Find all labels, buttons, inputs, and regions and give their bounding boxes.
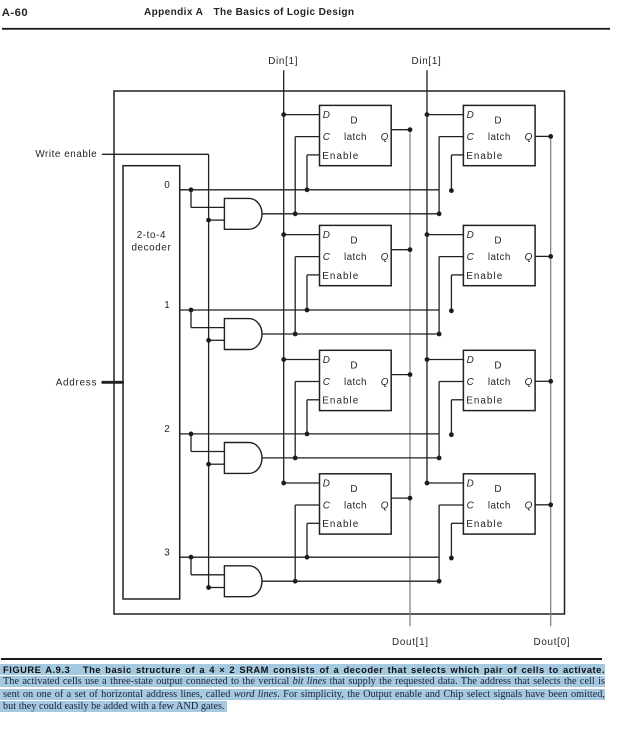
svg-text:Enable: Enable [322,271,359,282]
wire: write-enable tap row 2 [209,463,225,465]
wire: Din to D input row 1 left [284,234,320,236]
Address thick input line [102,381,124,384]
wire: Din vertical x=283.7 [283,70,285,483]
svg-text:Appendix A: Appendix A [144,7,204,18]
wire: Q output row 1 left [391,249,410,251]
AND gate row 1 [224,319,262,350]
svg-text:Enable: Enable [466,396,503,407]
D latch cell row 0 left column [320,105,392,165]
wire: AND output (clock line) row 2 [262,457,439,459]
svg-text:Address: Address [56,378,97,389]
wire: Din to D input row 2 left [284,359,320,361]
wire: C input row 0 right [439,136,463,138]
bit line Dout[0] vertical [550,136,552,626]
svg-text:0: 0 [164,180,170,191]
svg-text:Enable: Enable [322,151,359,162]
svg-text:D: D [467,110,474,121]
svg-text:Enable: Enable [322,519,359,530]
caption line 4 [0,701,227,713]
D latch cell row 3 right column [463,474,535,534]
wire: Din to D input row 3 right [427,482,463,484]
2-to-4 decoder box [123,166,180,599]
svg-text:D: D [350,235,357,246]
wire: Din to D input row 3 left [284,482,320,484]
svg-text:D: D [467,479,474,490]
D latch cell row 0 right column [463,105,535,165]
svg-text:C: C [323,132,331,143]
svg-text:C: C [323,252,331,263]
D latch cell row 3 left column [320,474,392,534]
svg-text:Q: Q [525,377,533,388]
svg-text:C: C [323,377,331,388]
D latch cell row 1 right column [463,225,535,285]
wire: decoder row 2 to AND gate [190,434,192,452]
wire: Enable input row 3 left [307,522,320,524]
wire: C input row 2 right [439,381,463,383]
svg-text:Q: Q [381,252,389,263]
wire: decoder row 0 to AND gate [190,190,192,208]
AND gate row 2 [224,443,262,474]
svg-text:C: C [467,500,475,511]
wire: Enable input row 3 right [451,522,463,524]
svg-text:2: 2 [164,424,170,435]
word line row 1 [180,309,439,311]
word line row 0 [180,189,439,191]
wire: Din to D input row 0 right [427,114,463,116]
wire: Enable input row 2 left [307,399,320,401]
svg-text:Q: Q [525,132,533,143]
svg-text:Din[1]: Din[1] [412,56,442,67]
svg-text:D: D [350,484,357,495]
header rule [2,28,610,30]
wire: C input row 1 right [439,256,463,258]
bit line Dout[1] vertical [409,130,411,627]
svg-text:D: D [494,235,501,246]
svg-text:latch: latch [344,377,367,388]
svg-text:latch: latch [488,132,511,143]
AND gate row 3 [224,566,262,597]
wire: C input row 2 left [295,381,319,383]
wire: C input row 1 left [295,256,319,258]
svg-text:2-to-4: 2-to-4 [137,230,166,241]
wire: C input row 0 left [295,136,319,138]
svg-text:D: D [494,484,501,495]
wire: C input row 3 left [295,504,319,506]
wire: AND output (clock line) row 1 [262,333,439,335]
svg-text:D: D [467,230,474,241]
svg-text:D: D [467,355,474,366]
wire: write-enable tap row 0 [209,219,225,221]
svg-text:The Basics of Logic Design: The Basics of Logic Design [214,7,355,18]
word line row 3 [180,556,439,558]
svg-text:C: C [467,377,475,388]
svg-text:D: D [494,115,501,126]
wire: Q output row 1 right [535,255,551,257]
svg-text:latch: latch [344,252,367,263]
svg-text:Q: Q [525,500,533,511]
svg-text:Write enable: Write enable [35,149,97,160]
svg-text:Q: Q [381,132,389,143]
svg-text:C: C [323,500,331,511]
SRAM array outer box [114,91,565,614]
wire: Q output row 0 right [535,135,551,137]
wire: Write enable vertical bus [208,154,210,587]
wire: write-enable tap row 1 [209,339,225,341]
wire: Q output row 0 left [391,129,410,131]
svg-text:latch: latch [488,377,511,388]
svg-text:D: D [494,360,501,371]
svg-text:D: D [350,360,357,371]
svg-text:latch: latch [344,132,367,143]
caption line 2 [0,676,605,687]
wire: Q output row 2 left [391,374,410,376]
AND gate row 0 [224,198,262,229]
caption top rule [1,658,602,660]
wire: AND output (clock line) row 3 [262,580,439,582]
svg-text:latch: latch [488,252,511,263]
wire: C input row 3 right [439,504,463,506]
svg-text:Dout[1]: Dout[1] [392,637,429,648]
svg-text:Q: Q [381,500,389,511]
wire: AND output (clock line) row 0 [262,213,439,215]
word line row 2 [180,433,439,435]
svg-text:D: D [323,230,330,241]
svg-text:1: 1 [164,300,170,311]
wire: Din to D input row 2 right [427,359,463,361]
svg-text:D: D [323,110,330,121]
D latch cell row 2 left column [320,350,392,410]
svg-text:latch: latch [488,500,511,511]
wire: Enable input row 0 left [307,154,320,156]
wire: Din to D input row 0 left [284,114,320,116]
svg-text:Q: Q [381,377,389,388]
wire: Enable input row 1 right [451,274,463,276]
svg-text:Enable: Enable [466,519,503,530]
wire: Enable input row 2 right [451,399,463,401]
svg-text:3: 3 [164,547,170,558]
wire: Din vertical x=427.0 [426,70,428,483]
caption line 1 (figure title) [0,664,605,675]
svg-text:D: D [350,115,357,126]
D latch cell row 1 left column [320,225,392,285]
wire: Write enable horizontal [102,153,209,155]
wire: Enable input row 0 right [451,154,463,156]
wire: Enable input row 1 left [307,274,320,276]
wire: write-enable tap row 3 [209,587,225,589]
svg-text:decoder: decoder [131,243,171,254]
svg-text:Enable: Enable [466,271,503,282]
caption line 3 [0,689,605,700]
svg-text:Q: Q [525,252,533,263]
svg-text:Enable: Enable [466,151,503,162]
D latch cell row 2 right column [463,350,535,410]
wire: Q output row 2 right [535,380,551,382]
wire: decoder row 1 to AND gate [190,310,192,328]
svg-text:C: C [467,132,475,143]
wire: Din to D input row 1 right [427,234,463,236]
svg-text:latch: latch [344,500,367,511]
svg-text:Dout[0]: Dout[0] [534,637,571,648]
svg-text:D: D [323,479,330,490]
svg-text:C: C [467,252,475,263]
svg-text:Din[1]: Din[1] [268,56,298,67]
svg-text:A-60: A-60 [2,7,28,19]
svg-text:D: D [323,355,330,366]
svg-text:Enable: Enable [322,396,359,407]
wire: Q output row 3 right [535,504,551,506]
wire: decoder row 3 to AND gate [190,557,192,575]
wire: Q output row 3 left [391,497,410,499]
